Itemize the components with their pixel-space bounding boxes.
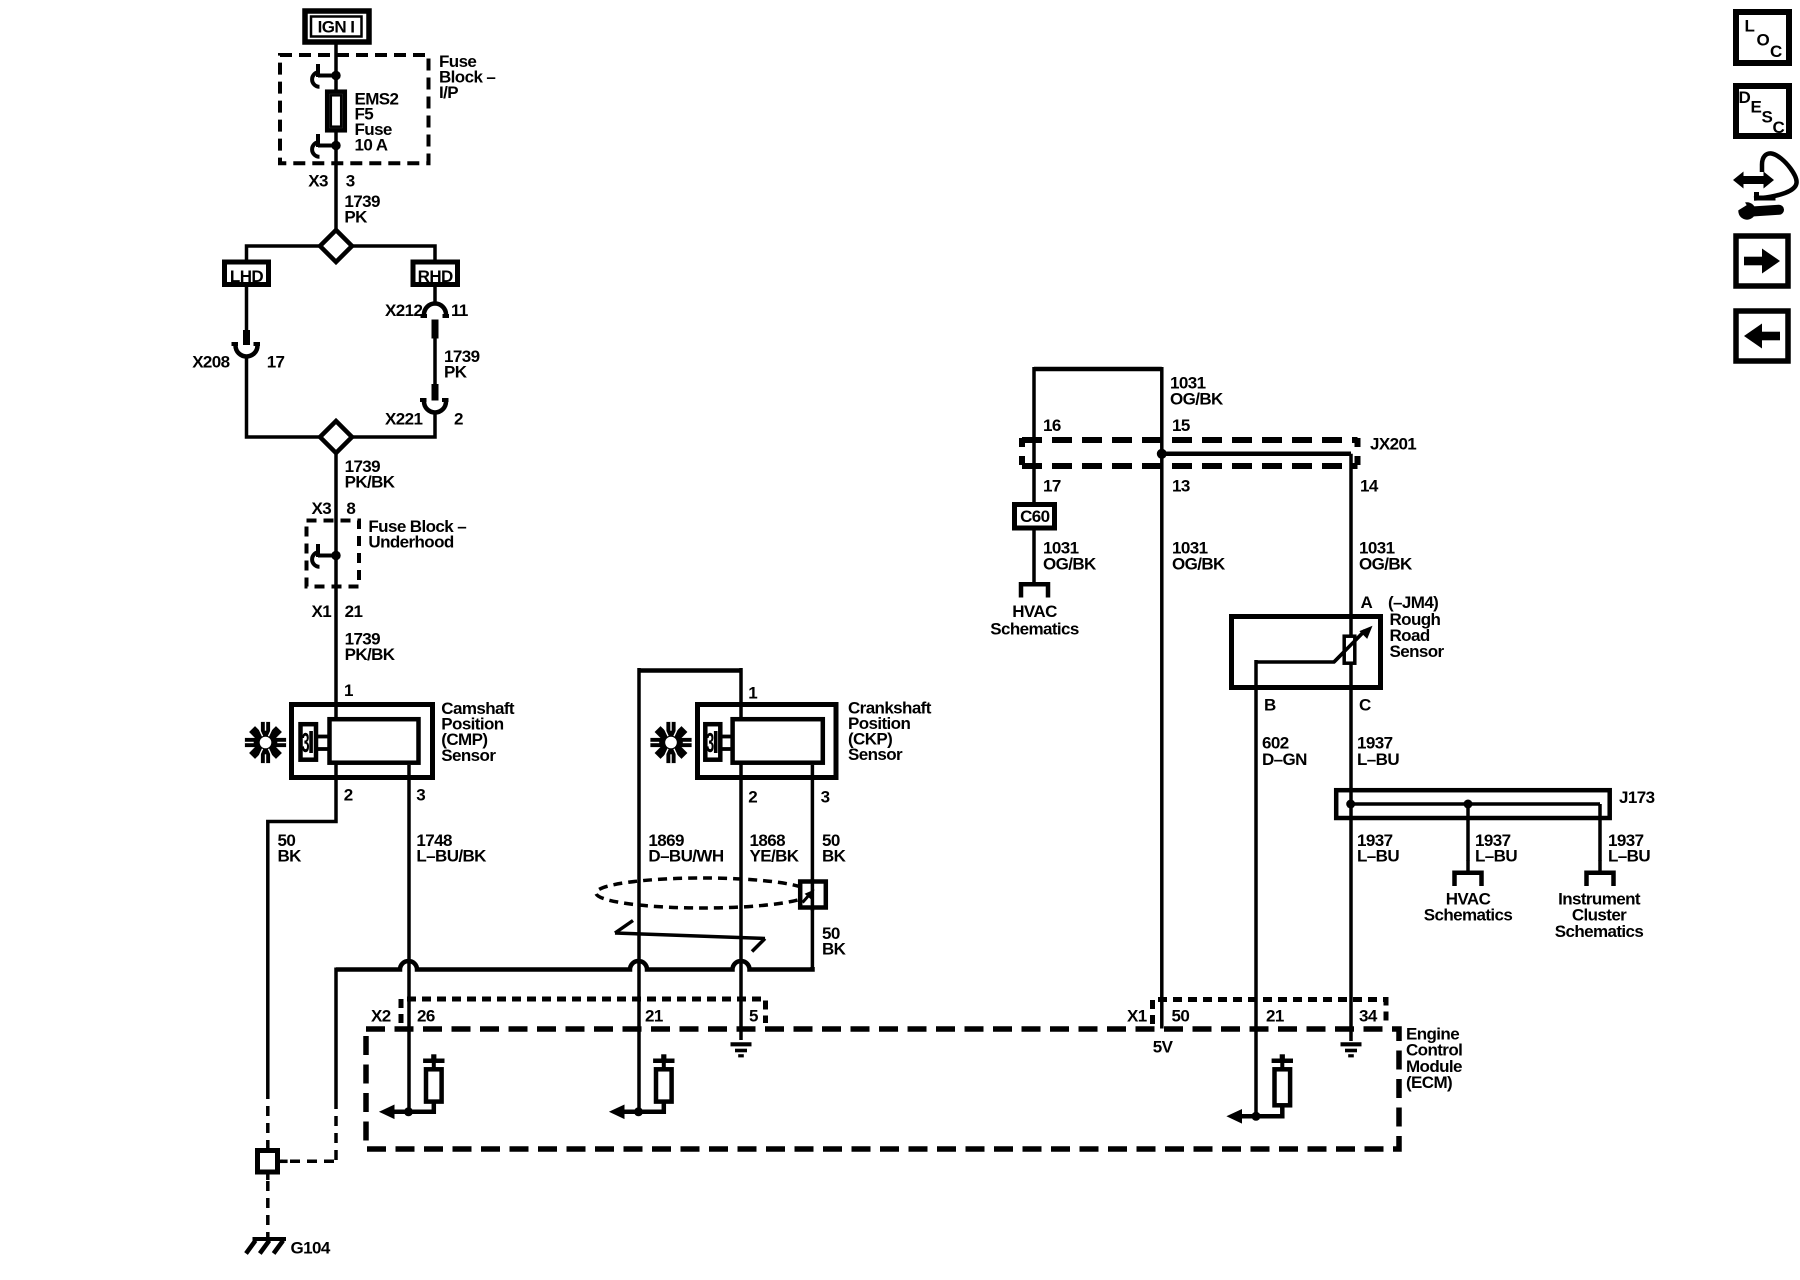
svg-text:I/P: I/P — [439, 83, 458, 102]
svg-text:B: B — [1264, 695, 1276, 714]
svg-text:21: 21 — [345, 602, 363, 621]
svg-text:A: A — [1361, 593, 1373, 612]
svg-text:X3: X3 — [312, 499, 332, 518]
svg-text:17: 17 — [267, 353, 285, 372]
svg-text:Underhood: Underhood — [368, 533, 453, 552]
svg-text:Schematics: Schematics — [990, 620, 1079, 639]
svg-text:17: 17 — [1043, 477, 1061, 496]
svg-text:E: E — [1751, 98, 1762, 117]
svg-text:C60: C60 — [1020, 507, 1050, 526]
svg-text:X221: X221 — [385, 409, 422, 428]
svg-text:1: 1 — [344, 681, 353, 700]
svg-text:PK: PK — [444, 362, 468, 381]
svg-text:IGN I: IGN I — [318, 18, 355, 37]
svg-text:(ECM): (ECM) — [1406, 1073, 1452, 1092]
svg-text:RHD: RHD — [418, 267, 453, 286]
svg-text:L–BU/BK: L–BU/BK — [416, 847, 487, 866]
svg-text:3: 3 — [416, 785, 425, 804]
svg-text:OG/BK: OG/BK — [1043, 555, 1097, 574]
svg-text:Sensor: Sensor — [441, 746, 496, 765]
svg-text:34: 34 — [1359, 1006, 1378, 1025]
svg-text:1: 1 — [748, 684, 757, 703]
svg-text:L–BU: L–BU — [1608, 847, 1650, 866]
svg-text:X208: X208 — [192, 353, 229, 372]
svg-text:BK: BK — [822, 847, 847, 866]
svg-text:2: 2 — [344, 785, 353, 804]
svg-text:2: 2 — [748, 787, 757, 806]
svg-text:10 A: 10 A — [355, 136, 388, 155]
svg-text:PK/BK: PK/BK — [345, 645, 396, 664]
svg-text:G104: G104 — [291, 1238, 331, 1257]
svg-text:Sensor: Sensor — [1390, 642, 1445, 661]
svg-text:(–JM4): (–JM4) — [1388, 593, 1438, 612]
svg-text:50: 50 — [1172, 1006, 1190, 1025]
svg-text:26: 26 — [417, 1006, 435, 1025]
svg-text:OG/BK: OG/BK — [1172, 555, 1226, 574]
svg-text:PK/BK: PK/BK — [345, 473, 396, 492]
svg-text:Schematics: Schematics — [1424, 906, 1513, 925]
svg-text:X3: X3 — [308, 171, 328, 190]
svg-text:13: 13 — [1172, 477, 1190, 496]
svg-text:L–BU: L–BU — [1357, 847, 1399, 866]
svg-text:16: 16 — [1043, 416, 1061, 435]
svg-text:OG/BK: OG/BK — [1359, 555, 1413, 574]
svg-text:21: 21 — [645, 1006, 663, 1025]
svg-text:X1: X1 — [1127, 1006, 1147, 1025]
svg-text:D: D — [1739, 88, 1751, 107]
svg-text:X2: X2 — [371, 1006, 391, 1025]
svg-text:3: 3 — [706, 727, 714, 758]
svg-text:X1: X1 — [312, 602, 332, 621]
svg-text:J173: J173 — [1619, 788, 1655, 807]
svg-text:O: O — [1757, 31, 1770, 50]
svg-text:L: L — [1745, 17, 1755, 36]
svg-text:3: 3 — [302, 727, 310, 758]
svg-text:L–BU: L–BU — [1357, 750, 1399, 769]
svg-text:PK: PK — [344, 207, 368, 226]
svg-text:LHD: LHD — [230, 267, 263, 286]
svg-text:X212: X212 — [385, 301, 422, 320]
svg-text:2: 2 — [454, 409, 463, 428]
svg-text:3: 3 — [821, 787, 830, 806]
svg-text:8: 8 — [346, 499, 355, 518]
svg-text:Schematics: Schematics — [1555, 922, 1644, 941]
svg-text:BK: BK — [278, 847, 303, 866]
svg-text:21: 21 — [1266, 1006, 1284, 1025]
svg-text:YE/BK: YE/BK — [750, 847, 800, 866]
svg-text:14: 14 — [1360, 477, 1379, 496]
svg-text:D–BU/WH: D–BU/WH — [648, 847, 723, 866]
svg-text:5: 5 — [749, 1006, 758, 1025]
svg-text:15: 15 — [1172, 416, 1190, 435]
svg-text:Sensor: Sensor — [848, 745, 903, 764]
svg-text:HVAC: HVAC — [1012, 602, 1057, 621]
svg-text:D–GN: D–GN — [1262, 750, 1307, 769]
svg-text:C: C — [1770, 42, 1782, 61]
svg-text:JX201: JX201 — [1370, 435, 1416, 454]
svg-text:C: C — [1359, 695, 1371, 714]
svg-text:3: 3 — [346, 171, 355, 190]
svg-text:L–BU: L–BU — [1475, 847, 1517, 866]
svg-text:5V: 5V — [1153, 1038, 1174, 1057]
svg-text:11: 11 — [451, 301, 468, 320]
svg-text:C: C — [1773, 118, 1785, 137]
svg-text:S: S — [1762, 108, 1773, 127]
svg-text:BK: BK — [822, 940, 847, 959]
svg-text:OG/BK: OG/BK — [1170, 390, 1224, 409]
